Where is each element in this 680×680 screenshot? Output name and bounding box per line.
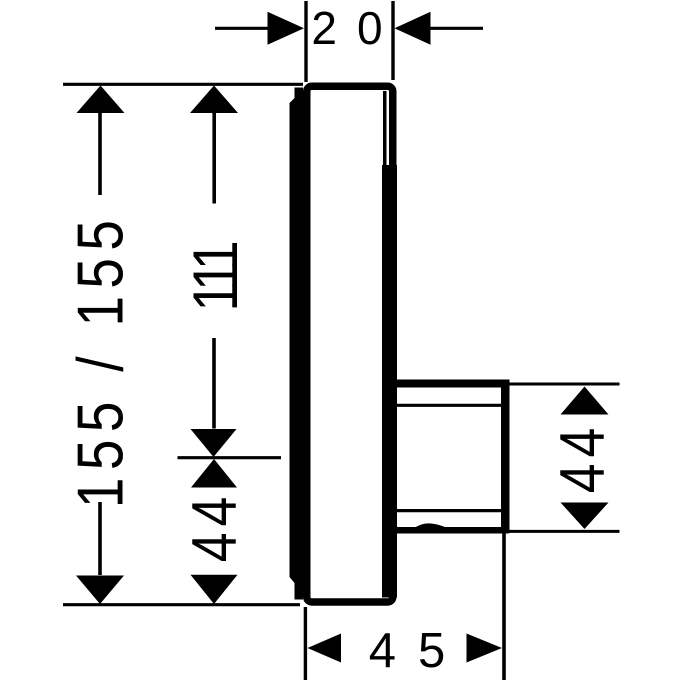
svg-text:44: 44 — [548, 422, 618, 493]
dim 44 right: top arrow — [561, 387, 609, 415]
dim 44 left: label — [180, 491, 250, 562]
dim 20: right extension line — [391, 1, 394, 80]
dim 155/155: top tail — [98, 113, 102, 195]
plate right edge solid band — [382, 165, 397, 598]
dim 44 left: bottom arrow — [191, 575, 238, 604]
valve box bottom edge — [392, 527, 509, 534]
valve box inner bottom line — [397, 509, 503, 512]
dim 155/155: bottom extension line — [63, 603, 300, 606]
dim 45: left arrow — [308, 634, 342, 663]
dim 44 right: bottom arrow — [561, 503, 609, 530]
dim 111: label — [181, 243, 251, 312]
dim 44 right: bottom extension line — [509, 530, 620, 533]
dim 155/155: top arrow — [77, 86, 125, 114]
dim 155/155: bottom tail — [98, 502, 102, 575]
dim 155/155: top extension line — [63, 83, 303, 86]
plate outline (escutcheon side view) — [307, 86, 393, 602]
dim 44 left: top arrow — [191, 459, 237, 488]
dim 111: bottom arrow — [191, 429, 237, 457]
valve box right edge — [501, 380, 510, 534]
valve box bottom bump — [414, 523, 447, 528]
dim 111: bottom tail — [212, 338, 216, 429]
dim 44 right: label — [548, 422, 618, 493]
dim 45: right arrow — [467, 634, 503, 663]
dim 20: right arrow — [395, 12, 431, 45]
dim 20: left extension line — [304, 1, 307, 82]
valve box inner top line — [397, 404, 503, 407]
svg-text:44: 44 — [180, 491, 250, 562]
plate inner face line — [383, 91, 387, 597]
dim 111: top arrow — [190, 86, 238, 114]
valve box top edge — [392, 380, 509, 388]
dim 155/155: bottom arrow — [76, 576, 124, 605]
dim 45: right extension line — [502, 534, 506, 680]
dim 45: left extension line — [304, 607, 307, 680]
dim 44 right: top extension line — [509, 383, 620, 386]
svg-text:111: 111 — [181, 243, 251, 312]
svg-text:45: 45 — [369, 624, 468, 678]
svg-text:20: 20 — [311, 2, 402, 54]
dim 20: left tail — [215, 27, 270, 30]
dim 20: right tail — [430, 27, 483, 30]
svg-text:155 / 155: 155 / 155 — [63, 213, 136, 508]
dim 20: left arrow — [268, 12, 305, 45]
center line of valve — [178, 456, 282, 459]
dim 111: top tail — [212, 113, 216, 204]
plate back strip — [290, 88, 304, 600]
dim 155/155: label — [63, 213, 136, 508]
